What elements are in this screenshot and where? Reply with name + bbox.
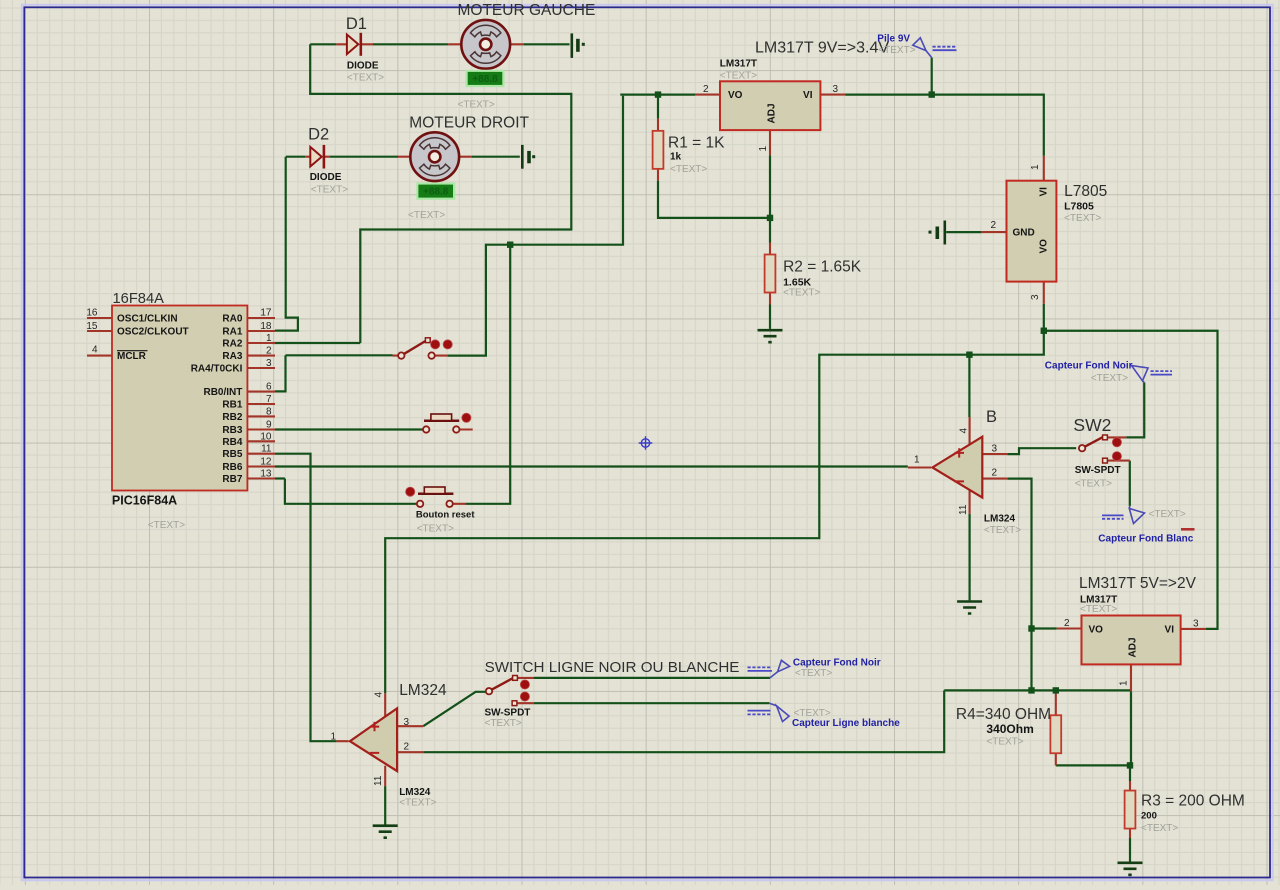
svg-text:D1: D1: [346, 15, 367, 33]
svg-text:RA0: RA0: [222, 314, 242, 325]
svg-text:<TEXT>: <TEXT>: [458, 100, 495, 111]
svg-text:2: 2: [404, 742, 410, 753]
svg-text:<TEXT>: <TEXT>: [1141, 823, 1178, 834]
svg-text:3: 3: [266, 358, 272, 369]
svg-text:Capteur Fond Blanc: Capteur Fond Blanc: [1098, 534, 1193, 545]
svg-text:<TEXT>: <TEXT>: [347, 73, 384, 84]
svg-text:+88.8: +88.8: [472, 74, 498, 85]
svg-text:<TEXT>: <TEXT>: [670, 164, 707, 175]
svg-text:<TEXT>: <TEXT>: [1080, 604, 1117, 615]
svg-text:ADJ: ADJ: [1128, 637, 1139, 657]
svg-text:SWITCH LIGNE NOIR OU BLANCHE: SWITCH LIGNE NOIR OU BLANCHE: [485, 659, 740, 676]
svg-text:MCLR: MCLR: [117, 351, 147, 362]
svg-text:Capteur Fond Noir: Capteur Fond Noir: [793, 657, 881, 668]
svg-text:9: 9: [266, 420, 272, 431]
svg-text:2: 2: [990, 220, 996, 231]
svg-text:+88.8: +88.8: [423, 187, 449, 198]
svg-text:<TEXT>: <TEXT>: [984, 525, 1021, 536]
svg-text:OSC2/CLKOUT: OSC2/CLKOUT: [117, 327, 189, 338]
svg-text:2: 2: [1064, 618, 1070, 629]
svg-text:3: 3: [404, 717, 410, 728]
svg-text:<TEXT>: <TEXT>: [1149, 509, 1186, 520]
svg-text:<TEXT>: <TEXT>: [720, 70, 757, 81]
svg-text:<TEXT>: <TEXT>: [408, 210, 445, 221]
svg-text:SW2: SW2: [1073, 415, 1111, 435]
svg-text:Capteur Fond Noir: Capteur Fond Noir: [1045, 360, 1133, 371]
svg-text:L7805: L7805: [1064, 201, 1094, 213]
svg-text:LM324: LM324: [984, 514, 1016, 525]
svg-text:VI: VI: [1165, 625, 1175, 636]
svg-text:L7805: L7805: [1064, 183, 1107, 200]
svg-text:MOTEUR GAUCHE: MOTEUR GAUCHE: [458, 2, 596, 19]
svg-text:2: 2: [992, 468, 998, 479]
svg-text:VO: VO: [1039, 239, 1050, 254]
svg-text:11: 11: [261, 444, 272, 455]
svg-text:1: 1: [914, 455, 920, 466]
svg-text:<TEXT>: <TEXT>: [417, 523, 454, 534]
svg-text:15: 15: [86, 321, 98, 332]
svg-text:1: 1: [266, 333, 272, 344]
svg-text:VI: VI: [1039, 187, 1050, 197]
svg-text:PIC16F84A: PIC16F84A: [112, 494, 177, 508]
svg-text:18: 18: [260, 321, 272, 332]
svg-text:R4=340 OHM: R4=340 OHM: [956, 706, 1051, 723]
svg-text:7: 7: [266, 394, 272, 405]
svg-text:DIODE: DIODE: [310, 172, 342, 183]
svg-text:<TEXT>: <TEXT>: [794, 708, 831, 719]
svg-text:17: 17: [260, 307, 272, 318]
svg-text:4: 4: [374, 692, 385, 698]
svg-text:10: 10: [260, 431, 272, 442]
svg-text:1: 1: [1119, 680, 1130, 686]
svg-text:RB3: RB3: [222, 425, 242, 436]
svg-text:SW-SPDT: SW-SPDT: [1075, 465, 1121, 476]
svg-text:RB4: RB4: [222, 437, 242, 448]
svg-text:16F84A: 16F84A: [113, 291, 165, 307]
svg-text:2: 2: [703, 84, 709, 95]
svg-text:11: 11: [958, 504, 969, 515]
svg-text:D2: D2: [308, 125, 329, 143]
svg-text:3: 3: [992, 444, 998, 455]
svg-text:OSC1/CLKIN: OSC1/CLKIN: [117, 314, 178, 325]
svg-text:RB1: RB1: [222, 400, 242, 411]
svg-text:B: B: [986, 408, 997, 426]
svg-text:11: 11: [373, 775, 384, 786]
svg-text:DIODE: DIODE: [347, 60, 379, 71]
svg-text:<TEXT>: <TEXT>: [485, 718, 522, 729]
svg-text:R1 = 1K: R1 = 1K: [668, 135, 725, 152]
svg-text:Capteur Ligne blanche: Capteur Ligne blanche: [792, 718, 900, 729]
svg-text:200: 200: [1141, 811, 1157, 822]
svg-text:<TEXT>: <TEXT>: [783, 287, 820, 298]
svg-text:6: 6: [266, 382, 272, 393]
svg-text:3: 3: [1193, 619, 1199, 630]
svg-text:Pile 9V: Pile 9V: [877, 34, 910, 45]
svg-text:Bouton reset: Bouton reset: [416, 510, 475, 521]
svg-text:1k: 1k: [670, 152, 682, 163]
svg-text:<TEXT>: <TEXT>: [1075, 479, 1112, 490]
svg-text:1: 1: [758, 146, 769, 152]
svg-text:3: 3: [1030, 294, 1041, 300]
svg-text:GND: GND: [1013, 228, 1035, 239]
svg-text:RA3: RA3: [222, 351, 242, 362]
svg-text:<TEXT>: <TEXT>: [311, 185, 348, 196]
svg-text:RB7: RB7: [222, 474, 242, 485]
svg-text:MOTEUR DROIT: MOTEUR DROIT: [409, 115, 529, 132]
svg-text:LM317T 5V=>2V: LM317T 5V=>2V: [1079, 575, 1197, 592]
svg-text:<TEXT>: <TEXT>: [399, 798, 436, 809]
svg-text:LM324: LM324: [399, 787, 431, 798]
svg-text:<TEXT>: <TEXT>: [878, 45, 915, 56]
svg-text:4: 4: [959, 428, 970, 434]
svg-text:RB6: RB6: [222, 462, 242, 473]
svg-text:LM317T 9V=>3.4V: LM317T 9V=>3.4V: [755, 40, 889, 57]
svg-text:R3 = 200 OHM: R3 = 200 OHM: [1141, 793, 1245, 810]
svg-text:VO: VO: [728, 90, 743, 101]
svg-text:1: 1: [1030, 164, 1041, 170]
svg-text:RB2: RB2: [222, 412, 242, 423]
svg-text:1: 1: [330, 732, 336, 743]
svg-text:SW-SPDT: SW-SPDT: [485, 708, 531, 719]
svg-text:R2 = 1.65K: R2 = 1.65K: [783, 259, 862, 276]
svg-text:16: 16: [86, 307, 98, 318]
svg-text:4: 4: [92, 345, 98, 356]
svg-text:RB5: RB5: [222, 449, 242, 460]
svg-text:<TEXT>: <TEXT>: [1091, 373, 1128, 384]
svg-text:RA1: RA1: [222, 327, 242, 338]
svg-text:VI: VI: [803, 90, 813, 101]
svg-text:VO: VO: [1089, 625, 1104, 636]
svg-text:<TEXT>: <TEXT>: [986, 737, 1023, 748]
svg-text:3: 3: [833, 84, 839, 95]
svg-text:8: 8: [266, 406, 272, 417]
svg-text:RB0/INT: RB0/INT: [203, 387, 242, 398]
svg-text:<TEXT>: <TEXT>: [1064, 213, 1101, 224]
svg-text:LM324: LM324: [399, 682, 447, 699]
svg-text:<TEXT>: <TEXT>: [795, 668, 832, 679]
svg-text:<TEXT>: <TEXT>: [148, 520, 185, 531]
svg-text:2: 2: [266, 346, 272, 357]
svg-text:13: 13: [260, 469, 272, 480]
svg-text:RA2: RA2: [222, 339, 242, 350]
svg-text:RA4/T0CKI: RA4/T0CKI: [191, 364, 243, 375]
svg-text:340Ohm: 340Ohm: [986, 722, 1033, 736]
svg-text:ADJ: ADJ: [767, 103, 778, 123]
svg-text:12: 12: [260, 457, 272, 468]
svg-text:LM317T: LM317T: [720, 59, 757, 70]
